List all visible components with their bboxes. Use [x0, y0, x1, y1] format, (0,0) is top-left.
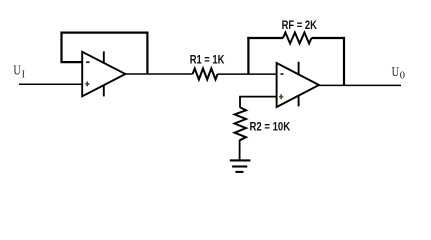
wire R2 branch to U2 noninverting input: [240, 97, 277, 108]
svg-text:R1 = 1K: R1 = 1K: [190, 54, 225, 66]
wire RF right vertical (RF to output node): [343, 37, 345, 86]
wire U1 output to R1: [125, 73, 193, 75]
svg-text:U: U: [13, 64, 20, 79]
op-amp U1: [82, 51, 125, 96]
resistor R2: [235, 108, 246, 141]
svg-text:0: 0: [400, 70, 405, 81]
wire RF left vertical (tap junction to RF): [247, 37, 249, 75]
svg-text:RF = 2K: RF = 2K: [282, 20, 318, 32]
wire RF top rail right: [312, 37, 346, 39]
wire RF top rail left: [247, 37, 283, 39]
op-amp U2: [277, 62, 319, 107]
wire R2 to ground: [239, 140, 241, 160]
resistor R1: [193, 69, 218, 80]
wire U1 feedback loop (output to inverting input): [62, 33, 148, 74]
wire R1 to U2 inverting input: [218, 73, 277, 75]
svg-text:U: U: [392, 65, 399, 80]
node U_I label: [13, 64, 25, 81]
ground: [230, 160, 251, 172]
svg-text:R2 = 10K: R2 = 10K: [250, 121, 291, 133]
node U_O label: [392, 65, 405, 82]
wire U2 output to U_O: [318, 84, 401, 86]
resistor RF: [283, 33, 312, 44]
svg-text:I: I: [22, 70, 26, 81]
wire input U_I to U1 noninverting input: [19, 83, 82, 85]
